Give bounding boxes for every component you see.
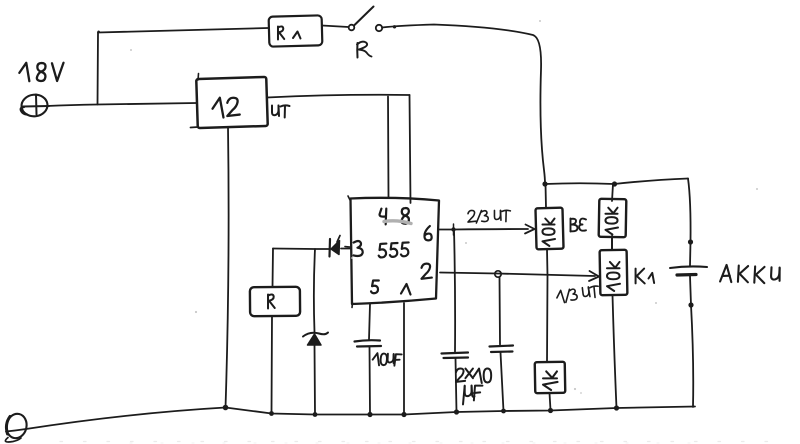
label 10k upper [605, 208, 618, 235]
resistor R box [250, 287, 300, 316]
junction blob battery top [688, 239, 693, 244]
junction UT rail at 10k upper [612, 181, 617, 186]
junction gnd resistor R [269, 411, 274, 416]
resistor 10k (upper right) [599, 199, 627, 237]
UT rail right segment [545, 182, 614, 185]
label R (resistor) [268, 294, 275, 308]
wire 18V terminal to regulator input [47, 103, 197, 106]
wire UT to 555 pin 8 [410, 95, 411, 203]
wire UT rail down to 10k upper [612, 184, 613, 201]
wire 1k to ground [550, 393, 551, 410]
IC 555 timer body [351, 198, 440, 304]
pin 5 label [371, 281, 379, 294]
pen blob on switch wire [393, 25, 396, 28]
wire trigger node down to C2 [499, 277, 502, 345]
switch contact R (relay) [349, 25, 355, 31]
junction gnd K1 [614, 405, 619, 410]
junction gnd regulator [223, 405, 229, 411]
regulator 12V box [196, 77, 268, 128]
wire UT rail corner down to battery [688, 179, 691, 243]
label 2/3 UT [468, 210, 510, 223]
label K1 [636, 269, 645, 284]
resistor 10k (K1) [600, 250, 628, 295]
label 1/3 UT [556, 286, 600, 304]
wire regulator output UT rail [267, 95, 410, 98]
wire 10k upper to 10k K1 [611, 236, 613, 250]
label 1k [543, 371, 557, 390]
wire resistor BE down to 1k [546, 249, 549, 362]
junction gnd 1k [548, 408, 553, 413]
wire UT rail down to resistor BE [545, 184, 548, 208]
diode D1 (cathode bar left, arrow left) [331, 241, 340, 255]
terminal 0V (bottom left) [4, 412, 29, 440]
wire 555 pin 5 down to capacitor [369, 304, 370, 340]
wire 10k K1 to ground [613, 295, 617, 408]
pin 8 label [402, 208, 409, 224]
zener diode ZD1 [308, 334, 322, 345]
wire 555 pin 3 to diode [341, 248, 350, 250]
wire C1 to ground [456, 359, 457, 413]
wire to battery plus plate [689, 242, 692, 266]
label 12 [213, 98, 240, 118]
wire node A down to zener [314, 249, 315, 332]
label BE [571, 219, 587, 232]
wire resistor R to ground [271, 316, 274, 414]
pin 4 label [380, 209, 387, 225]
junction gnd 10uF [367, 412, 372, 417]
paper edge speckles [60, 441, 770, 443]
faint specks [130, 20, 758, 394]
junction gnd zener [313, 412, 318, 417]
wire 555 pin 1 to ground [403, 303, 405, 414]
wire capacitor 10uF to ground [369, 347, 372, 414]
label AKKU [720, 265, 780, 285]
wire threshold node down to C1 [454, 230, 455, 352]
wire threshold arrow to resistor BE [454, 228, 529, 231]
pin 1 label [401, 284, 411, 295]
terminal +18V [20, 93, 48, 117]
resistor 1k [535, 362, 566, 394]
junction trigger/C2 (open circle) [495, 271, 501, 277]
label 10uF [372, 353, 401, 367]
UT rail to battery corner [615, 179, 689, 185]
wire C2 to ground [501, 353, 504, 412]
label UT [272, 105, 290, 117]
wire battery minus down [690, 276, 691, 305]
battery AKKU plates [670, 266, 707, 268]
capacitor C2 plates [490, 346, 514, 347]
junction blob battery bottom [688, 302, 693, 307]
label 2x10 [456, 369, 491, 383]
resistor 10k (BE sense) [535, 208, 563, 250]
stray smudge under pin 8 [384, 221, 411, 224]
label 555 [378, 242, 409, 257]
junction gnd C2 [501, 409, 506, 414]
label 10k BE resistor [542, 218, 555, 246]
pin 2 label [422, 264, 432, 279]
wire switch to UT rail (down right) [382, 25, 545, 185]
wire diode to node A [273, 248, 330, 251]
wire battery to ground end [691, 305, 693, 407]
wire 555 pin 2 to trigger arrow [440, 273, 595, 277]
junction gnd C1 [454, 409, 459, 414]
label uF [463, 386, 482, 405]
wire 555 pin 6 to threshold node [439, 229, 454, 231]
label R1 [278, 26, 284, 39]
wire node A down to resistor R [272, 249, 275, 288]
capacitor C1 plates [442, 353, 469, 354]
pin 6 label [424, 226, 431, 240]
capacitor 10uF plates [355, 340, 381, 341]
junction threshold node [451, 227, 455, 231]
label 10k K1 [607, 262, 620, 291]
junction at UT rail left [542, 181, 547, 186]
wire top rail to R1 [98, 28, 268, 33]
wire branch up to relay coil R1 [98, 31, 100, 104]
wire zener to ground [314, 345, 317, 414]
wire R1 to switch contact [322, 26, 349, 28]
label R [356, 43, 358, 58]
wire UT to 555 pin 4 [387, 97, 390, 198]
pin 3 label [354, 241, 363, 256]
relay coil R1 [269, 15, 323, 46]
regulator top-left tick [197, 74, 200, 81]
label 18V [19, 62, 63, 82]
junction gnd pin1 [401, 412, 406, 417]
regulator bottom-left tick [191, 126, 199, 129]
wire regulator ground [226, 127, 229, 408]
ground rail [6, 407, 695, 432]
